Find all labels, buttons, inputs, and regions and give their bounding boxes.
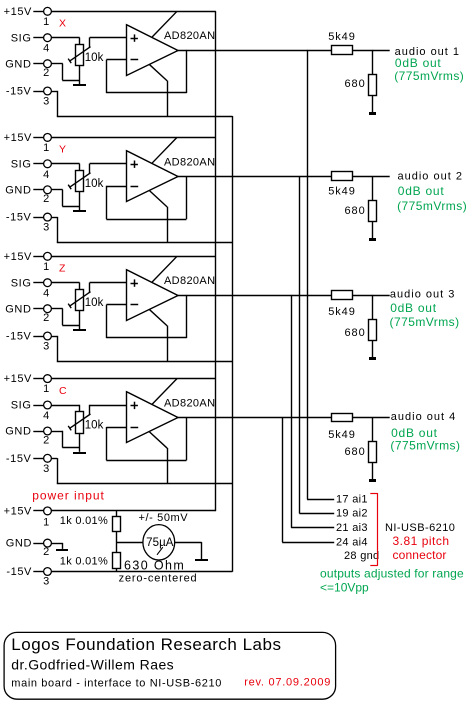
svg-text:4: 4 [43,169,50,181]
svg-text:3: 3 [43,341,50,353]
svg-text:1: 1 [43,261,50,273]
svg-text:1: 1 [43,142,50,154]
svg-text:-15V: -15V [6,453,32,465]
svg-text:28 gnd: 28 gnd [344,550,379,562]
svg-text:rev. 07.09.2009: rev. 07.09.2009 [244,676,331,688]
svg-text:75µA: 75µA [146,537,174,549]
svg-text:0dB out: 0dB out [395,56,442,70]
svg-text:3: 3 [43,222,50,234]
svg-text:3.81 pitch: 3.81 pitch [393,534,450,548]
svg-text:17 ai1: 17 ai1 [336,494,368,506]
svg-text:680: 680 [344,78,365,90]
svg-text:10k: 10k [85,419,104,431]
svg-text:1: 1 [43,16,50,28]
svg-text:+15V: +15V [4,506,32,518]
svg-text:5k49: 5k49 [328,31,355,43]
svg-text:(775mVrms): (775mVrms) [397,199,467,213]
svg-text:-15V: -15V [6,331,32,343]
svg-text:630 Ohm: 630 Ohm [124,558,185,572]
svg-text:audio out 2: audio out 2 [398,171,463,183]
svg-text:-15V: -15V [6,86,32,98]
svg-text:power input: power input [32,489,105,503]
svg-text:5k49: 5k49 [328,185,355,197]
svg-text:C: C [59,385,67,397]
svg-text:audio out 3: audio out 3 [390,289,455,301]
svg-text:1k 0.01%: 1k 0.01% [60,555,108,567]
svg-text:24 ai4: 24 ai4 [336,536,368,548]
svg-text:3: 3 [43,576,50,588]
svg-text:main board - interface to NI-U: main board - interface to NI-USB-6210 [11,677,222,689]
svg-text:5k49: 5k49 [328,429,355,441]
svg-text:(775mVrms): (775mVrms) [390,439,460,453]
svg-text:680: 680 [344,205,365,217]
svg-text:1: 1 [43,383,50,395]
svg-text:dr.Godfried-Willem Raes: dr.Godfried-Willem Raes [11,656,174,672]
svg-text:10k: 10k [85,178,104,190]
svg-text:4: 4 [43,43,50,55]
svg-text:4: 4 [43,288,50,300]
svg-text:Z: Z [59,263,66,275]
svg-text:21 ai3: 21 ai3 [336,522,368,534]
svg-text:audio out 4: audio out 4 [391,411,456,423]
svg-text:3: 3 [43,96,50,108]
svg-text:(775mVrms): (775mVrms) [390,315,460,329]
svg-text:2: 2 [43,193,50,205]
svg-text:0dB out: 0dB out [390,301,437,315]
svg-text:10k: 10k [85,52,104,64]
svg-text:2: 2 [43,312,50,324]
svg-text:AD820AN: AD820AN [164,275,215,287]
svg-text:AD820AN: AD820AN [164,30,215,42]
svg-text:SIG: SIG [11,32,32,44]
svg-text:GND: GND [5,184,31,196]
svg-text:GND: GND [5,58,31,70]
svg-text:19 ai2: 19 ai2 [336,508,368,520]
svg-text:(775mVrms): (775mVrms) [394,69,464,83]
svg-text:X: X [59,18,66,30]
svg-text:SIG: SIG [11,158,32,170]
svg-text:GND: GND [6,538,32,550]
svg-text:NI-USB-6210: NI-USB-6210 [385,522,455,534]
svg-text:Logos Foundation Research Labs: Logos Foundation Research Labs [11,635,281,654]
svg-text:-15V: -15V [6,212,32,224]
svg-text:680: 680 [344,446,365,458]
svg-text:+/- 50mV: +/- 50mV [139,512,189,524]
svg-text:2: 2 [43,67,50,79]
svg-text:GND: GND [5,303,31,315]
svg-text:+15V: +15V [4,6,32,18]
svg-text:+15V: +15V [4,373,32,385]
svg-text:AD820AN: AD820AN [164,398,215,410]
svg-text:<=10Vpp: <=10Vpp [320,580,369,594]
svg-text:zero-centered: zero-centered [119,572,198,584]
svg-text:outputs adjusted for range: outputs adjusted for range [320,566,464,580]
svg-text:connector: connector [393,548,447,562]
svg-text:3: 3 [43,463,50,475]
svg-text:1: 1 [43,517,50,529]
svg-text:2: 2 [43,434,50,446]
svg-text:+15V: +15V [4,132,32,144]
svg-text:1k 0.01%: 1k 0.01% [60,515,108,527]
svg-text:+15V: +15V [4,251,32,263]
svg-text:2: 2 [43,546,50,558]
svg-text:AD820AN: AD820AN [164,156,215,168]
svg-text:5k49: 5k49 [328,306,355,318]
svg-text:SIG: SIG [11,400,32,412]
svg-text:-15V: -15V [6,566,32,578]
svg-text:SIG: SIG [11,277,32,289]
svg-text:Y: Y [59,144,66,156]
svg-text:0dB out: 0dB out [398,184,445,198]
svg-text:GND: GND [5,426,31,438]
svg-text:10k: 10k [85,297,104,309]
svg-text:680: 680 [344,327,365,339]
svg-text:4: 4 [43,410,50,422]
